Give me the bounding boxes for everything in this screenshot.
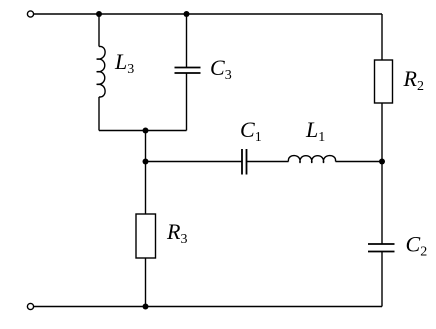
wire C2 to bottom rail — [381, 252, 383, 307]
svg-text:C3: C3 — [210, 55, 232, 83]
wire C1 to L1 — [247, 161, 289, 163]
wire bottom rail — [34, 306, 382, 308]
wire top rail to C3 — [186, 14, 188, 68]
svg-text:C1: C1 — [240, 117, 262, 145]
wire left vertical down to R3 — [145, 131, 147, 215]
inductor L3 — [97, 46, 106, 97]
node middle rail right — [379, 159, 385, 165]
wire right vertical to R2 — [381, 14, 383, 60]
wire R2 to middle rail to C2 — [381, 103, 383, 244]
svg-text:R3: R3 — [166, 219, 187, 247]
capacitor C2 — [368, 244, 395, 252]
resistor R3 — [136, 214, 156, 258]
wire L3 bottom stem — [98, 97, 100, 131]
wire top rail — [34, 13, 382, 15]
node bottom rail — [143, 304, 149, 310]
svg-text:R2: R2 — [403, 66, 424, 94]
inductor L1 — [288, 156, 335, 163]
wire R3 to bottom rail — [145, 258, 147, 307]
svg-text:L3: L3 — [114, 49, 134, 77]
node middle rail left — [143, 159, 149, 165]
node L3/C3 bottom — [143, 128, 149, 134]
wire L3/C3 bottom link — [99, 130, 187, 132]
wire C3 bottom stem — [186, 73, 188, 131]
wire top rail to L3 — [98, 14, 100, 47]
svg-text:L1: L1 — [305, 117, 325, 145]
capacitor C1 — [242, 149, 247, 175]
terminal top-left — [27, 11, 33, 17]
node top rail / L3 — [96, 11, 102, 17]
wire middle rail to C1 — [146, 161, 243, 163]
resistor R2 — [375, 60, 393, 103]
wire L1 to right junction — [336, 161, 383, 163]
terminal bottom-left — [27, 303, 33, 309]
node top rail / C3 — [184, 11, 190, 17]
svg-text:C2: C2 — [406, 232, 428, 260]
capacitor C3 — [175, 68, 201, 74]
